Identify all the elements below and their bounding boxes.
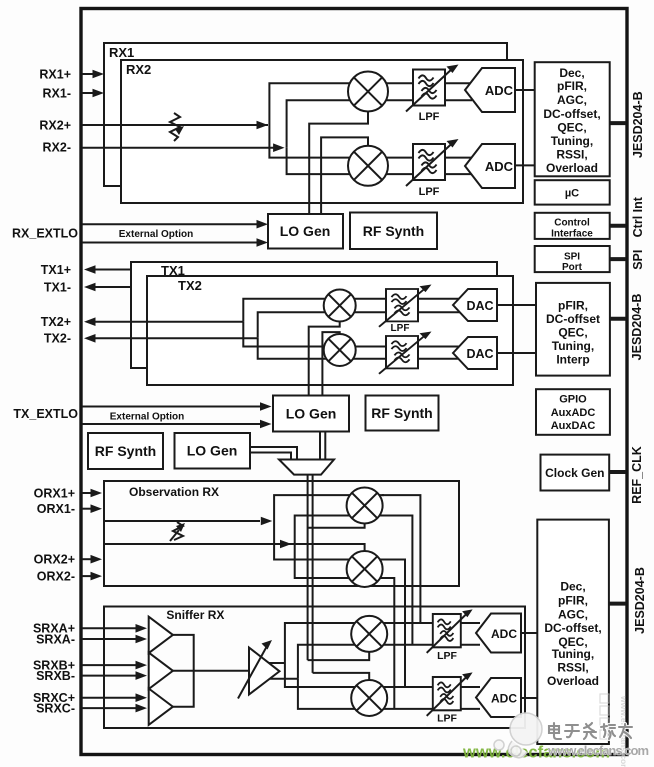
svg-text:TX2: TX2: [178, 278, 202, 293]
svg-text:DC-offset,: DC-offset,: [544, 621, 601, 635]
svg-text:LPF: LPF: [437, 650, 457, 662]
svg-text:LPF: LPF: [391, 323, 410, 334]
svg-text:External Option: External Option: [110, 412, 184, 423]
svg-text:Dec,: Dec,: [560, 580, 585, 594]
svg-text:Tuning,: Tuning,: [551, 134, 593, 148]
svg-text:RSSI,: RSSI,: [556, 148, 587, 162]
svg-text:DAC: DAC: [466, 299, 493, 313]
svg-text:RX2: RX2: [126, 62, 151, 77]
svg-text:LPF: LPF: [437, 713, 457, 725]
svg-text:Overload: Overload: [546, 161, 598, 175]
svg-text:www.elecfans.com: www.elecfans.com: [547, 743, 649, 758]
svg-text:ADC: ADC: [485, 83, 514, 98]
svg-text:TX1-: TX1-: [44, 281, 71, 295]
svg-text:QEC,: QEC,: [557, 121, 586, 135]
svg-text:LPF: LPF: [419, 111, 440, 123]
svg-text:LPF: LPF: [419, 186, 440, 198]
svg-text:AGC,: AGC,: [557, 93, 587, 107]
svg-text:REF_CLK: REF_CLK: [630, 446, 644, 504]
svg-text:DAC: DAC: [466, 347, 493, 361]
svg-text:TX_EXTLO: TX_EXTLO: [13, 407, 78, 421]
svg-text:Control: Control: [554, 218, 590, 229]
svg-text:External Option: External Option: [119, 229, 193, 240]
svg-text:RX2-: RX2-: [43, 141, 71, 155]
svg-text:Interp: Interp: [556, 353, 589, 367]
svg-text:TX1+: TX1+: [41, 263, 71, 277]
svg-text:ADC: ADC: [491, 627, 517, 641]
svg-text:QEC,: QEC,: [558, 326, 587, 340]
svg-text:AuxADC: AuxADC: [551, 407, 596, 419]
svg-text:ORX2-: ORX2-: [37, 570, 75, 584]
svg-text:AGC,: AGC,: [558, 608, 588, 622]
svg-text:LO Gen: LO Gen: [280, 223, 331, 239]
svg-text:Tuning,: Tuning,: [552, 339, 594, 353]
svg-text:TX2+: TX2+: [41, 315, 71, 329]
svg-text:RF Synth: RF Synth: [371, 405, 432, 421]
svg-text:RX2+: RX2+: [39, 119, 71, 133]
svg-text:ORX1+: ORX1+: [34, 487, 75, 501]
svg-text:LO Gen: LO Gen: [286, 406, 337, 422]
svg-text:Clock Gen: Clock Gen: [545, 466, 604, 480]
svg-text:pFIR,: pFIR,: [558, 299, 588, 313]
svg-text:ADC: ADC: [491, 692, 517, 706]
svg-text:JESD204-B: JESD204-B: [633, 567, 647, 634]
svg-text:SPI: SPI: [631, 250, 645, 270]
svg-text:Interface: Interface: [551, 229, 593, 240]
svg-text:µC: µC: [565, 188, 579, 200]
svg-text:Dec,: Dec,: [559, 66, 584, 80]
svg-text:DC-offset,: DC-offset,: [543, 107, 600, 121]
svg-text:JESD204-B: JESD204-B: [631, 91, 645, 158]
svg-text:SPI: SPI: [564, 252, 580, 263]
svg-text:JESD204-B: JESD204-B: [630, 294, 644, 361]
svg-text:pFIR,: pFIR,: [558, 594, 588, 608]
svg-text:Port: Port: [562, 262, 583, 273]
svg-text:SRXB-: SRXB-: [36, 669, 75, 683]
svg-text:RX_EXTLO: RX_EXTLO: [12, 227, 78, 241]
svg-text:pFIR,: pFIR,: [557, 79, 587, 93]
svg-text:RX1+: RX1+: [39, 68, 71, 82]
svg-text:Observation RX: Observation RX: [129, 485, 219, 499]
svg-text:DC-offset: DC-offset: [546, 312, 600, 326]
svg-text:TX2-: TX2-: [44, 332, 71, 346]
svg-text:RX1: RX1: [109, 45, 134, 60]
svg-text:LO Gen: LO Gen: [187, 443, 238, 459]
svg-text:Ctrl Int: Ctrl Int: [631, 196, 645, 237]
svg-text:RSSI,: RSSI,: [557, 661, 588, 675]
svg-text:RF Synth: RF Synth: [363, 223, 424, 239]
svg-text:SRXC-: SRXC-: [36, 702, 75, 716]
svg-text:Sniffer RX: Sniffer RX: [166, 608, 224, 622]
svg-text:ORX1-: ORX1-: [37, 502, 75, 516]
svg-text:GPIO: GPIO: [559, 394, 587, 406]
svg-text:ADC: ADC: [485, 159, 514, 174]
svg-text:ORX2+: ORX2+: [34, 553, 75, 567]
svg-text:Overload: Overload: [547, 674, 599, 688]
svg-text:RX1-: RX1-: [43, 87, 71, 101]
svg-text:AuxDAC: AuxDAC: [551, 420, 596, 432]
svg-text:Tuning,: Tuning,: [552, 647, 594, 661]
svg-text:SRXA-: SRXA-: [36, 633, 75, 647]
svg-text:RF Synth: RF Synth: [95, 443, 156, 459]
svg-text:TX1: TX1: [161, 263, 185, 278]
